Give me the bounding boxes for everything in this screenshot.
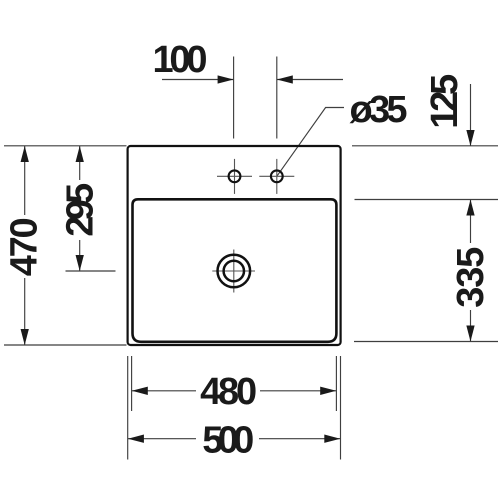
svg-text:100: 100 — [153, 39, 208, 81]
svg-text:470: 470 — [4, 217, 46, 276]
svg-text:125: 125 — [424, 74, 466, 129]
svg-text:335: 335 — [450, 247, 492, 308]
svg-text:500: 500 — [202, 420, 254, 462]
svg-text:295: 295 — [59, 183, 101, 237]
svg-text:ø35: ø35 — [350, 89, 408, 131]
svg-text:480: 480 — [200, 371, 257, 413]
